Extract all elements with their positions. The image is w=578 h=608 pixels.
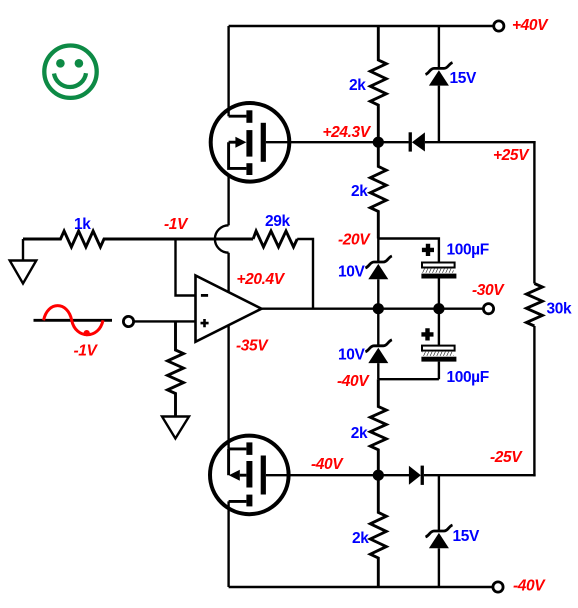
wire output row — [262, 308, 484, 310]
source sine annotation — [34, 306, 113, 337]
wire gate Q1 to node — [266, 141, 378, 143]
node output-right — [433, 303, 444, 314]
svg-text:2k: 2k — [352, 530, 369, 547]
terminal -40V bottom — [493, 582, 503, 592]
svg-text:-1V: -1V — [74, 343, 99, 360]
wire right column upper — [533, 141, 535, 284]
zener D5 10V — [365, 309, 392, 380]
svg-text:100µF: 100µF — [447, 242, 489, 259]
ground G2 — [162, 417, 189, 439]
diode D1 — [409, 132, 425, 151]
wire -20V node to C1 — [378, 239, 439, 263]
node output-left — [373, 303, 384, 314]
capacitor C1 100uF — [421, 244, 456, 309]
transistor Q2 (lower MOSFET) — [210, 436, 289, 587]
svg-text:-35V: -35V — [236, 338, 269, 355]
wire hop-to-Q2 (passes behind op-amp) — [227, 253, 229, 449]
svg-text:-25V: -25V — [490, 449, 523, 466]
resistor R1 2k — [370, 26, 386, 143]
wire hop — [215, 225, 229, 252]
svg-text:15V: 15V — [453, 528, 480, 545]
ground G1 — [10, 239, 37, 284]
transistor Q1 (upper MOSFET) — [211, 103, 290, 182]
op-amp U1 — [196, 276, 262, 342]
svg-text:2k: 2k — [349, 77, 366, 94]
terminal -30V — [483, 304, 493, 314]
svg-text:-20V: -20V — [338, 232, 371, 249]
svg-text:1k: 1k — [74, 216, 91, 233]
resistor R3 2k — [370, 475, 386, 587]
svg-text:+24.3V: +24.3V — [323, 124, 372, 141]
wire minus input — [176, 239, 196, 296]
svg-text:15V: 15V — [450, 70, 477, 87]
wire bottom rail — [229, 586, 493, 588]
svg-text:+40V: +40V — [512, 17, 549, 34]
svg-text:-40V: -40V — [311, 456, 344, 473]
wire feedback corner — [297, 239, 313, 309]
zener D4 10V — [365, 239, 392, 309]
svg-text:+25V: +25V — [493, 147, 530, 164]
resistor R7 29k — [253, 231, 297, 247]
wire source vertical Q1-to-hop — [227, 175, 229, 225]
svg-text:2k: 2k — [351, 183, 368, 200]
svg-text:10V: 10V — [338, 264, 365, 281]
capacitor C2 100uF — [421, 309, 456, 380]
svg-text:30k: 30k — [547, 301, 572, 318]
wire top rail — [229, 25, 494, 27]
wire D1 to +25V corner — [425, 141, 536, 143]
svg-text:+20.4V: +20.4V — [237, 271, 286, 288]
wire D2 to -25V corner — [424, 474, 536, 476]
wire right column lower — [533, 326, 535, 476]
wire node to diode D2 — [378, 474, 410, 476]
svg-text:-30V: -30V — [472, 282, 505, 299]
wire gate Q2 to node — [266, 474, 378, 476]
resistor R2 2k — [370, 142, 386, 238]
node -40V gate row — [373, 470, 384, 481]
resistor 30k — [526, 284, 542, 327]
svg-text:-40V: -40V — [513, 578, 546, 595]
zener D6 15V — [426, 475, 453, 587]
svg-text:-40V: -40V — [337, 373, 370, 390]
node +24.3V — [373, 137, 384, 148]
resistor R4 2k — [370, 379, 386, 475]
svg-text:-1V: -1V — [164, 216, 189, 233]
svg-text:29k: 29k — [265, 213, 290, 230]
terminal input — [123, 316, 133, 326]
wire plus input — [134, 320, 196, 322]
resistor R5 — [168, 321, 184, 416]
resistor R6 1k — [23, 231, 253, 247]
svg-text:100µF: 100µF — [447, 369, 489, 386]
wire node to diode D1 — [378, 141, 409, 143]
diode D2 — [409, 466, 424, 485]
smiley annotation — [44, 45, 96, 97]
svg-text:2k: 2k — [351, 425, 368, 442]
wire -40V row (C2 bottom) — [378, 378, 439, 380]
zener D3 15V — [426, 26, 453, 142]
svg-text:10V: 10V — [338, 347, 365, 364]
wire drain Q1 — [227, 26, 229, 116]
terminal +40V — [494, 21, 504, 31]
